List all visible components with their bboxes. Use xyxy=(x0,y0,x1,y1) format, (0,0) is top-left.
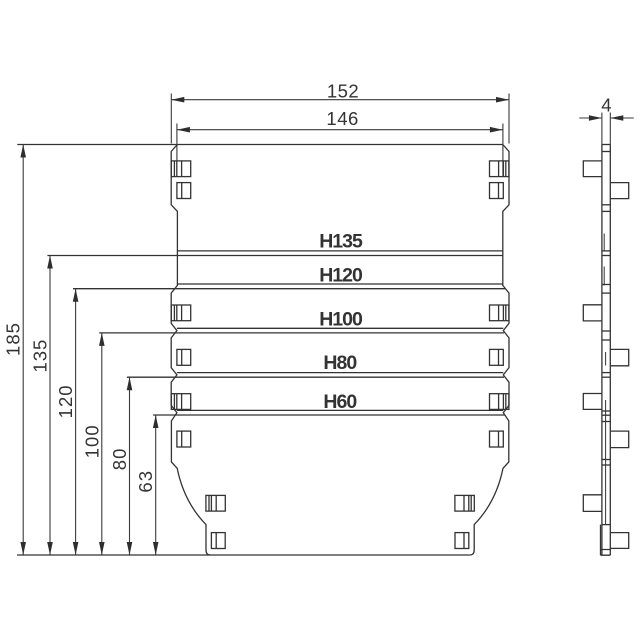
svg-text:185: 185 xyxy=(3,322,24,356)
svg-text:100: 100 xyxy=(81,424,102,458)
svg-text:H100: H100 xyxy=(319,309,363,331)
svg-text:152: 152 xyxy=(327,80,359,101)
svg-text:146: 146 xyxy=(326,108,358,129)
svg-text:H60: H60 xyxy=(323,391,357,413)
svg-text:135: 135 xyxy=(30,339,51,373)
svg-text:H120: H120 xyxy=(319,264,363,286)
svg-text:80: 80 xyxy=(109,448,130,471)
svg-text:120: 120 xyxy=(55,384,76,418)
svg-text:H135: H135 xyxy=(319,231,363,253)
svg-text:63: 63 xyxy=(135,470,156,493)
svg-text:H80: H80 xyxy=(323,352,357,374)
svg-text:4: 4 xyxy=(601,95,612,116)
